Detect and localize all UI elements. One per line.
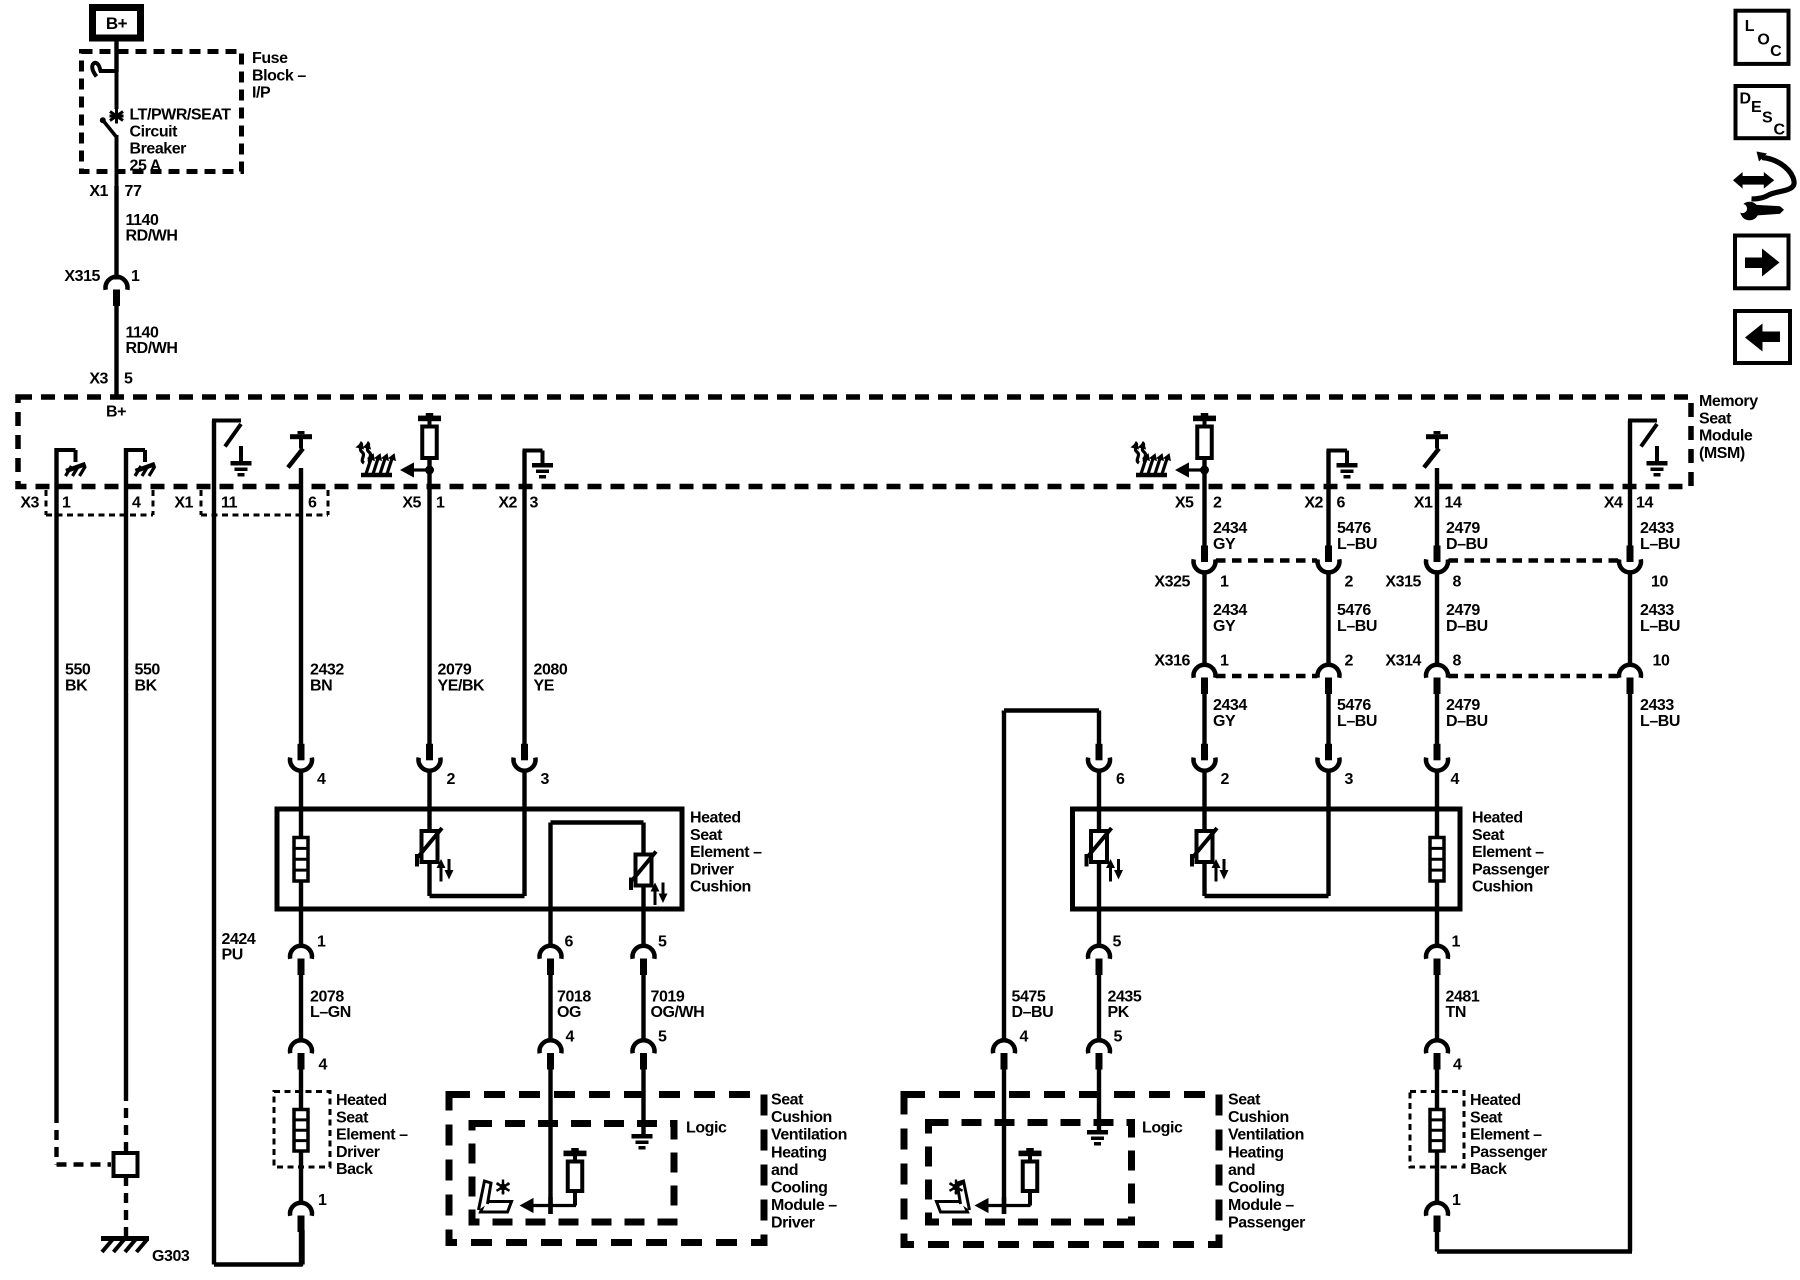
arrow to heated seat (passenger) — [1175, 462, 1189, 477]
fuse block I/P dashed box — [82, 52, 242, 172]
inline connector (5476 to element pin 3) — [1325, 744, 1332, 761]
inline connector (2080 to element pin 3) — [521, 744, 528, 761]
svg-text:Logic: Logic — [1142, 1120, 1183, 1137]
svg-text:2434: 2434 — [1213, 697, 1247, 714]
svg-text:X316: X316 — [1154, 653, 1190, 670]
inline connector X316-2 — [1318, 665, 1340, 678]
svg-text:D: D — [1740, 91, 1751, 108]
svg-text:YE/BK: YE/BK — [438, 678, 486, 695]
seat icon with snowflake (driver logic) — [481, 1202, 512, 1213]
svg-text:X315: X315 — [1385, 574, 1421, 591]
wire into driver back element — [299, 1070, 303, 1111]
chassis ground symbol (X3-1) — [66, 464, 86, 471]
svg-text:2479: 2479 — [1446, 697, 1480, 714]
svg-text:2: 2 — [1221, 771, 1230, 788]
svg-text:2433: 2433 — [1640, 520, 1674, 537]
inline connector (2432 BN to element pin 4) — [298, 744, 305, 761]
svg-text:Passenger: Passenger — [1228, 1215, 1305, 1232]
connector X3 dashed outline — [45, 490, 48, 515]
ground G303 chassis symbol — [101, 1236, 149, 1241]
svg-text:1: 1 — [1452, 934, 1461, 951]
wire passenger back to 2433 — [1435, 1232, 1439, 1252]
dashed connector link X314 — [1449, 674, 1619, 679]
inline connector (5475 pin 4) — [993, 1040, 1015, 1053]
arrow to seat icon (driver logic) — [520, 1198, 534, 1213]
wire 5475 into module — [1002, 1070, 1006, 1215]
dashed connector link X325 — [1216, 558, 1317, 563]
svg-text:RD/WH: RD/WH — [126, 228, 178, 245]
svg-text:X5: X5 — [402, 495, 421, 512]
svg-text:550: 550 — [135, 662, 161, 679]
seat icon with snowflake (passenger logic) — [937, 1202, 968, 1213]
svg-text:L–GN: L–GN — [310, 1004, 351, 1021]
svg-text:5475: 5475 — [1012, 989, 1046, 1006]
wire 2434 GY segment 3 — [1202, 694, 1206, 744]
svg-text:4: 4 — [319, 1057, 328, 1074]
memory seat module MSM dashed box — [18, 397, 1691, 487]
svg-text:Logic: Logic — [686, 1120, 727, 1137]
thermistor (passenger cushion left) — [1091, 831, 1107, 862]
svg-text:1: 1 — [1220, 653, 1229, 670]
inline connector X314-8 — [1426, 665, 1448, 678]
svg-text:5: 5 — [124, 371, 133, 388]
svg-text:5: 5 — [1113, 934, 1122, 951]
svg-text:1: 1 — [317, 934, 326, 951]
svg-text:2424: 2424 — [222, 931, 256, 948]
wire into passenger element pin 4 — [1435, 771, 1439, 838]
inline connector (2479 to element pin 4) — [1434, 744, 1441, 761]
thermistor (driver cushion 2) — [636, 855, 652, 886]
inline connector (pin 6 passenger) — [1096, 744, 1103, 761]
wire into element pin 3 — [522, 771, 526, 896]
svg-text:O: O — [1757, 32, 1769, 49]
inline connector X315-8 — [1434, 546, 1441, 563]
svg-text:4: 4 — [566, 1029, 575, 1046]
svg-text:Fuse: Fuse — [252, 50, 288, 67]
heated seat element driver cushion box — [277, 809, 682, 909]
svg-text:D–BU: D–BU — [1446, 536, 1488, 553]
icon box arrow right — [1735, 236, 1789, 289]
ground hook (X2-6) — [1327, 449, 1331, 456]
svg-text:5: 5 — [658, 1029, 667, 1046]
svg-text:X3: X3 — [89, 371, 108, 388]
svg-text:C: C — [1774, 122, 1786, 139]
svg-text:2479: 2479 — [1446, 602, 1480, 619]
resistor with handle (MSM X5-2) — [1201, 413, 1209, 416]
svg-text:Ventilation: Ventilation — [1228, 1127, 1304, 1144]
svg-text:1140: 1140 — [126, 325, 159, 342]
inline connector X315-10 — [1627, 546, 1634, 563]
svg-text:1: 1 — [62, 495, 71, 512]
svg-text:1: 1 — [131, 268, 140, 285]
wire 7018 OG — [548, 975, 552, 1042]
junction 5475 arrow (passenger logic) — [1002, 1197, 1007, 1214]
svg-text:5476: 5476 — [1337, 520, 1371, 537]
wire 2433 L-BU segment 2 — [1628, 573, 1632, 667]
seat cushion vent module passenger dashed box — [904, 1095, 1219, 1245]
inline connector X316-1 — [1194, 665, 1216, 678]
wire into element pin 4 — [299, 771, 303, 838]
icon box arrow left — [1735, 311, 1790, 363]
svg-text:1: 1 — [436, 495, 445, 512]
svg-text:D–BU: D–BU — [1446, 713, 1488, 730]
heating element (passenger cushion) — [1430, 838, 1444, 882]
svg-text:6: 6 — [565, 934, 574, 951]
wire thermistor mid bottom — [1202, 862, 1206, 896]
svg-text:6: 6 — [308, 495, 317, 512]
inline connector X315 pin 1 — [106, 277, 128, 290]
logic box passenger — [929, 1123, 1132, 1223]
svg-text:and: and — [1228, 1162, 1255, 1179]
svg-text:BK: BK — [135, 678, 158, 695]
wire 550 BK second segment with hook — [124, 448, 128, 1091]
wire 1140 RD/WH upper — [114, 186, 118, 280]
inline connector (2079 to element pin 2) — [426, 744, 433, 761]
wire 550 BK first segment with hook — [54, 448, 58, 1113]
svg-text:Element –: Element – — [336, 1127, 408, 1144]
svg-text:Back: Back — [1470, 1161, 1507, 1178]
svg-text:3: 3 — [530, 495, 539, 512]
svg-text:X314: X314 — [1385, 653, 1421, 670]
wire thermistor left bottom — [1097, 862, 1101, 948]
svg-text:1: 1 — [1220, 574, 1229, 591]
svg-text:Heating: Heating — [1228, 1144, 1284, 1161]
svg-text:2: 2 — [447, 771, 456, 788]
svg-text:550: 550 — [65, 662, 91, 679]
connector below box pin 5 (passenger) — [1088, 946, 1110, 959]
svg-text:2433: 2433 — [1640, 697, 1674, 714]
svg-text:L–BU: L–BU — [1337, 536, 1377, 553]
svg-text:1: 1 — [318, 1192, 327, 1209]
wire 2434 GY segment 1 — [1202, 459, 1206, 547]
svg-text:5476: 5476 — [1337, 602, 1371, 619]
svg-text:RD/WH: RD/WH — [126, 340, 178, 357]
chassis ground symbol (X3-4) — [136, 464, 156, 471]
wire into passenger element pin 6 — [1097, 771, 1101, 831]
wire 2424 PU — [212, 421, 216, 1265]
svg-text:BK: BK — [65, 678, 88, 695]
svg-text:1140: 1140 — [126, 212, 159, 229]
inline connector (7019 pin 5) — [633, 1040, 655, 1053]
wire into passenger back element — [1435, 1070, 1439, 1111]
icon box LOC — [1736, 11, 1789, 64]
svg-text:Seat: Seat — [1472, 827, 1505, 844]
heated seat element driver back dashed box — [274, 1092, 330, 1168]
svg-text:Driver: Driver — [336, 1144, 380, 1161]
svg-text:B+: B+ — [106, 404, 126, 421]
svg-text:X1: X1 — [89, 183, 108, 200]
switch to ground (X1-11) — [212, 419, 216, 424]
svg-text:(MSM): (MSM) — [1699, 445, 1745, 462]
svg-text:Breaker: Breaker — [130, 141, 187, 158]
wire 1140 RD/WH lower — [114, 306, 118, 398]
svg-text:PU: PU — [222, 947, 243, 964]
svg-text:and: and — [771, 1162, 798, 1179]
svg-text:I/P: I/P — [252, 85, 271, 102]
icon box DESC — [1736, 86, 1789, 138]
wire 550 BK dashed lower — [54, 1113, 58, 1165]
svg-text:GY: GY — [1213, 618, 1236, 635]
svg-text:4: 4 — [317, 771, 326, 788]
wire thermistor1 bottom — [427, 862, 431, 896]
wire 2435 PK — [1097, 975, 1101, 1042]
svg-text:2434: 2434 — [1213, 602, 1247, 619]
svg-text:2481: 2481 — [1446, 989, 1480, 1006]
svg-text:4: 4 — [1453, 1057, 1462, 1074]
junction 7018 arrow (driver logic) — [548, 1197, 553, 1214]
thermistor (passenger cushion mid) — [1197, 831, 1213, 862]
wire 550 BK dashed to splice — [124, 1091, 128, 1153]
thermistor (driver cushion 1) — [422, 831, 438, 862]
svg-text:X2: X2 — [498, 495, 517, 512]
svg-text:X325: X325 — [1154, 574, 1190, 591]
svg-text:LT/PWR/SEAT: LT/PWR/SEAT — [130, 107, 232, 124]
svg-text:BN: BN — [310, 678, 332, 695]
dashed connector link X315 — [1449, 558, 1619, 563]
wire 5476 L-BU segment 3 — [1326, 694, 1330, 744]
svg-text:X3: X3 — [20, 495, 39, 512]
svg-text:2078: 2078 — [310, 989, 344, 1006]
svg-text:X4: X4 — [1604, 495, 1623, 512]
arrow to heated seat (driver) — [400, 462, 414, 477]
ground symbol (X2-6) — [1337, 463, 1358, 468]
svg-text:X2: X2 — [1304, 495, 1323, 512]
svg-text:S: S — [1762, 110, 1773, 127]
wire 2078 L-GN — [299, 975, 303, 1042]
svg-text:X5: X5 — [1175, 495, 1194, 512]
svg-text:2079: 2079 — [438, 662, 472, 679]
wire 2479 D-BU segment 2 — [1435, 573, 1439, 667]
wire 2080 YE — [522, 451, 526, 745]
wire thermistor2 top link — [641, 823, 645, 855]
svg-text:PK: PK — [1108, 1004, 1130, 1021]
wire 7019 OG/WH — [641, 975, 645, 1042]
wire 2433 L-BU segment 3 — [1628, 694, 1632, 1252]
wire 2433 L-BU segment 1 — [1628, 421, 1632, 547]
wire 5475 D-BU — [1002, 711, 1006, 1043]
inline connector (2434 to element pin 2) — [1201, 744, 1208, 761]
heating element (driver cushion) — [294, 838, 308, 882]
svg-text:Module –: Module – — [771, 1197, 837, 1214]
inline connector (7018 pin 4) — [539, 1040, 561, 1053]
wire element to box bottom (pin1) — [299, 881, 303, 948]
inline connector X314-10 — [1619, 665, 1641, 678]
wire driver back element lower — [299, 1151, 303, 1205]
svg-text:GY: GY — [1213, 713, 1236, 730]
heated seat element passenger cushion box — [1073, 809, 1461, 909]
svg-text:Seat: Seat — [690, 827, 723, 844]
circuit breaker LT/PWR/SEAT 25 A — [99, 69, 117, 73]
svg-text:14: 14 — [1445, 495, 1462, 512]
svg-text:6: 6 — [1116, 771, 1125, 788]
svg-text:X1: X1 — [1414, 495, 1433, 512]
svg-text:B+: B+ — [106, 14, 128, 33]
inline connector (2481 pin 4) — [1426, 1040, 1448, 1053]
switch to ground (X4-14) — [1628, 419, 1632, 424]
svg-text:Memory: Memory — [1699, 393, 1758, 410]
svg-text:10: 10 — [1653, 653, 1670, 670]
svg-text:2: 2 — [1345, 653, 1354, 670]
svg-text:4: 4 — [1451, 771, 1460, 788]
svg-text:2080: 2080 — [534, 662, 568, 679]
connector passenger back pin 1 — [1426, 1203, 1448, 1216]
switch (X1-6) driver heat — [298, 431, 305, 434]
svg-text:2433: 2433 — [1640, 602, 1674, 619]
ground symbol (X2-3) — [532, 463, 553, 468]
svg-text:Heated: Heated — [1472, 810, 1523, 827]
svg-text:4: 4 — [1020, 1029, 1029, 1046]
icon part locator arrows wrench — [1733, 172, 1743, 189]
svg-text:X315: X315 — [64, 268, 100, 285]
svg-text:2434: 2434 — [1213, 520, 1247, 537]
wire 2479 D-BU segment 1 — [1435, 468, 1439, 546]
seat cushion vent module driver dashed box — [449, 1095, 764, 1243]
svg-text:Heated: Heated — [690, 810, 741, 827]
svg-text:Cushion: Cushion — [771, 1109, 832, 1126]
svg-text:8: 8 — [1453, 574, 1462, 591]
svg-text:Heating: Heating — [771, 1144, 827, 1161]
svg-text:Driver: Driver — [771, 1215, 815, 1232]
ground symbol (X4-14) — [1655, 446, 1659, 461]
svg-text:Element –: Element – — [1472, 844, 1544, 861]
svg-text:OG/WH: OG/WH — [651, 1004, 705, 1021]
wire link passenger seat pin 6 — [1002, 711, 1006, 713]
wire B+ to fuse block — [114, 38, 118, 72]
svg-text:Seat: Seat — [1470, 1109, 1503, 1126]
svg-text:L–BU: L–BU — [1337, 618, 1377, 635]
svg-text:L–BU: L–BU — [1337, 713, 1377, 730]
svg-text:L: L — [1745, 18, 1755, 35]
wire into element pin 2 — [427, 771, 431, 831]
svg-text:Passenger: Passenger — [1472, 861, 1549, 878]
svg-text:10: 10 — [1651, 574, 1668, 591]
splice junction box — [114, 1153, 138, 1176]
inline connector (2435 pin 5) — [1088, 1040, 1110, 1053]
svg-text:L–BU: L–BU — [1640, 618, 1680, 635]
ground symbol (X1-11) — [239, 446, 243, 461]
connector below box pin 6 (driver) — [539, 946, 561, 959]
connector X1 dashed outline — [200, 490, 203, 515]
resistor (driver logic) — [571, 1148, 579, 1151]
wire into passenger element pin 2 — [1202, 771, 1206, 831]
svg-text:5476: 5476 — [1337, 697, 1371, 714]
svg-text:2435: 2435 — [1108, 989, 1142, 1006]
svg-text:Module: Module — [1699, 428, 1753, 445]
svg-text:C: C — [1770, 43, 1782, 60]
wire 2481 TN — [1435, 975, 1439, 1042]
svg-text:Ventilation: Ventilation — [771, 1127, 847, 1144]
wire 7019 into module — [641, 1070, 645, 1135]
wire 2434 GY segment 2 — [1202, 573, 1206, 667]
wire 2479 D-BU segment 3 — [1435, 694, 1439, 744]
svg-text:Seat: Seat — [336, 1109, 369, 1126]
wire thermistor2 bottom — [641, 886, 645, 948]
connector driver back pin 1 — [290, 1203, 312, 1216]
svg-text:L–BU: L–BU — [1640, 713, 1680, 730]
ground symbol (passenger logic) — [1087, 1130, 1108, 1135]
svg-text:2432: 2432 — [310, 662, 344, 679]
svg-text:L–BU: L–BU — [1640, 536, 1680, 553]
svg-text:X1: X1 — [174, 495, 193, 512]
svg-text:5: 5 — [1114, 1029, 1123, 1046]
wire 2432 BN — [299, 468, 303, 744]
svg-text:Seat: Seat — [771, 1092, 804, 1109]
heated seat element passenger back dashed box — [1410, 1092, 1464, 1168]
svg-text:8: 8 — [1453, 653, 1462, 670]
svg-text:YE: YE — [534, 678, 555, 695]
connector below box pin 1 (passenger) — [1426, 946, 1448, 959]
ground hook (X2-3) — [523, 449, 527, 456]
inline connector X325-1 — [1201, 546, 1208, 563]
svg-text:Cushion: Cushion — [1228, 1109, 1289, 1126]
svg-text:Circuit: Circuit — [130, 124, 179, 141]
connector below box pin 5 (driver) — [633, 946, 655, 959]
dashed wire splice to ground — [124, 1176, 128, 1236]
heating element (driver back) — [294, 1110, 308, 1152]
resistor with handle (MSM X5-1) — [426, 413, 434, 416]
power symbol B+ battery feed — [93, 8, 141, 39]
svg-text:Cooling: Cooling — [1228, 1180, 1284, 1197]
inline connector (2078 pin 4) — [290, 1040, 312, 1053]
svg-text:6: 6 — [1337, 495, 1346, 512]
wire passenger back element lower — [1435, 1151, 1439, 1205]
svg-text:Heated: Heated — [1470, 1092, 1521, 1109]
svg-text:G303: G303 — [152, 1248, 190, 1265]
svg-text:Cushion: Cushion — [1472, 879, 1533, 896]
wire 7018 into module — [548, 1070, 552, 1215]
svg-text:5: 5 — [658, 934, 667, 951]
svg-text:E: E — [1751, 99, 1762, 116]
svg-text:Cushion: Cushion — [690, 879, 751, 896]
wire 5476 L-BU segment 2 — [1326, 573, 1330, 667]
svg-text:7019: 7019 — [651, 989, 685, 1006]
svg-text:Module –: Module – — [1228, 1197, 1294, 1214]
svg-text:Element –: Element – — [1470, 1127, 1542, 1144]
heating element (passenger back) — [1430, 1110, 1444, 1152]
svg-text:14: 14 — [1636, 495, 1653, 512]
svg-text:11: 11 — [221, 495, 238, 512]
wire passenger element to pin 1 — [1435, 881, 1439, 948]
svg-text:3: 3 — [1345, 771, 1354, 788]
svg-text:Driver: Driver — [690, 861, 734, 878]
svg-text:4: 4 — [132, 495, 141, 512]
inline connector X325-2 — [1325, 546, 1332, 563]
svg-text:3: 3 — [541, 771, 550, 788]
svg-text:Seat: Seat — [1699, 410, 1732, 427]
dashed connector link X316 — [1216, 674, 1317, 679]
svg-text:25 A: 25 A — [130, 158, 162, 175]
svg-text:Cooling: Cooling — [771, 1180, 827, 1197]
junction dot (X5-2) — [1200, 466, 1209, 475]
svg-text:Seat: Seat — [1228, 1092, 1261, 1109]
svg-text:Element –: Element – — [690, 844, 762, 861]
switch (X1-14) passenger heat — [1434, 431, 1441, 434]
svg-text:OG: OG — [557, 1004, 581, 1021]
wire 5476 L-BU segment 1 — [1326, 451, 1330, 547]
svg-text:Heated: Heated — [336, 1092, 387, 1109]
svg-text:D–BU: D–BU — [1012, 1004, 1054, 1021]
svg-text:D–BU: D–BU — [1446, 618, 1488, 635]
junction dot (X5-1) — [425, 466, 434, 475]
logic box driver — [472, 1124, 674, 1223]
wire 2435 into module — [1097, 1070, 1101, 1131]
svg-text:2479: 2479 — [1446, 520, 1480, 537]
connector below box pin 1 (driver) — [290, 946, 312, 959]
svg-text:GY: GY — [1213, 536, 1236, 553]
svg-text:2: 2 — [1213, 495, 1222, 512]
svg-text:7018: 7018 — [557, 989, 591, 1006]
svg-text:Block –: Block – — [252, 67, 306, 84]
